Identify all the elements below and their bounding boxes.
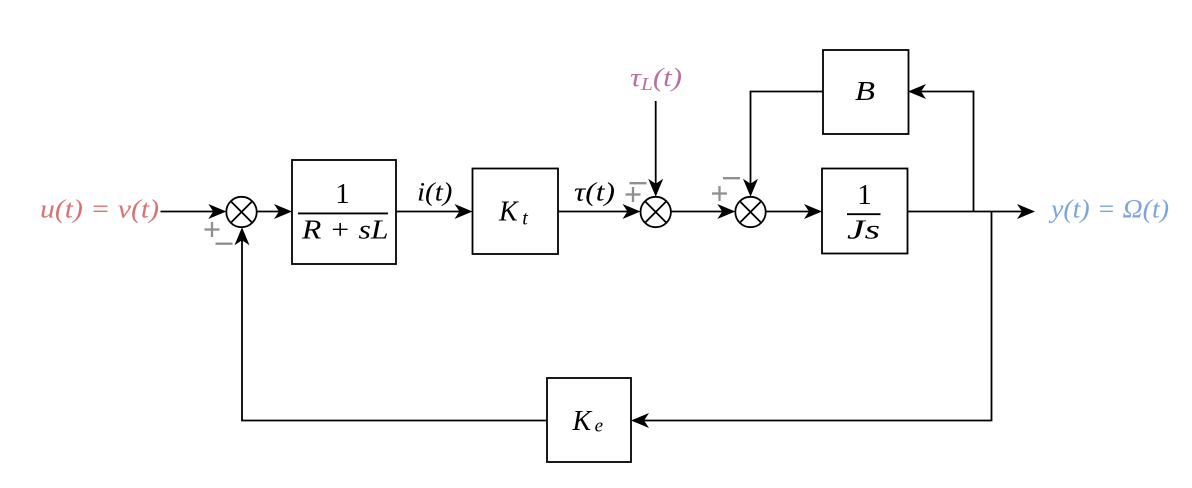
block B <box>823 50 909 134</box>
block Kt <box>473 169 559 255</box>
wire output branch down to block Ke <box>644 212 992 421</box>
S2 plus sign <box>626 187 641 202</box>
svg-text:τL(t): τL(t) <box>630 63 682 94</box>
wire Ke back to S1 <box>242 240 547 420</box>
output wire <box>908 211 1023 213</box>
wire tauL into S2 <box>655 101 657 184</box>
wire input to summing junction S1 <box>161 211 214 213</box>
svg-text:t: t <box>522 208 528 230</box>
svg-text:y(t) = Ω(t): y(t) = Ω(t) <box>1048 195 1169 224</box>
svg-text:u(t) = v(t): u(t) = v(t) <box>40 195 159 224</box>
summing junction S1 <box>226 197 256 227</box>
summing junction S2 <box>641 197 671 227</box>
svg-text:τ(t): τ(t) <box>574 178 615 207</box>
svg-text:R + sL: R + sL <box>301 215 389 245</box>
svg-text:K: K <box>498 196 519 227</box>
svg-text:K: K <box>572 406 593 437</box>
S1 plus sign <box>205 222 220 237</box>
block Ke <box>547 378 631 462</box>
svg-text:e: e <box>595 416 603 437</box>
S3 plus sign <box>712 186 727 201</box>
wire G1 to block Kt <box>396 211 460 213</box>
svg-text:1: 1 <box>335 178 350 210</box>
svg-text:Js: Js <box>847 215 880 245</box>
svg-text:B: B <box>855 75 875 106</box>
summing junction S3 <box>735 197 765 227</box>
block G2 1/(Js) <box>822 169 908 254</box>
wire B to S3 <box>751 92 824 184</box>
S3 minus sign <box>723 177 740 179</box>
wire S1 to block G1 <box>257 211 279 213</box>
S2 minus sign <box>630 182 647 184</box>
svg-text:i(t): i(t) <box>417 178 452 207</box>
wire S3 to block G2 <box>766 211 809 213</box>
wire Kt to summing junction S2 <box>558 211 628 213</box>
wire S2 to summing junction S3 <box>671 211 722 213</box>
block G1 1/(R+sL) <box>292 160 396 264</box>
S1 minus sign <box>216 243 233 245</box>
wire output branch up to block B <box>921 92 974 212</box>
svg-text:1: 1 <box>857 179 872 211</box>
